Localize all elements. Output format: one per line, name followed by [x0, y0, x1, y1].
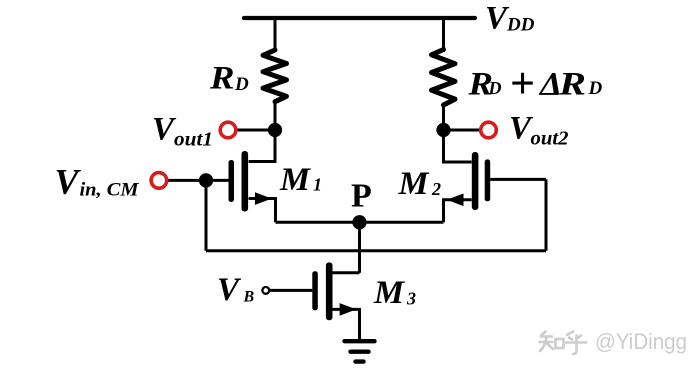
wire: Vout1 stub: [236, 129, 275, 132]
svg-text:D: D: [588, 78, 603, 99]
node Vout2 junction dot: [436, 123, 450, 137]
resistor RD: [263, 50, 287, 102]
svg-text:in, CM: in, CM: [80, 181, 140, 201]
M2 drain lead: [444, 130, 472, 162]
wire: right resistor to Vout2 node: [442, 103, 445, 162]
M3 gate bar: [312, 271, 318, 310]
svg-text:D: D: [234, 74, 249, 95]
svg-text:R: R: [558, 67, 586, 103]
M3 source arrow: [340, 303, 357, 316]
svg-text:1: 1: [313, 175, 322, 195]
svg-text:2: 2: [431, 179, 441, 199]
M1 drain lead: [249, 130, 275, 162]
M1 source lead: [249, 199, 276, 223]
svg-text:out1: out1: [174, 128, 213, 150]
node Vout1 junction dot: [268, 123, 282, 137]
terminal VB (small open circle): [262, 287, 269, 294]
M2 source lead: [444, 200, 472, 223]
transistor M2: [444, 130, 491, 222]
svg-text:M: M: [397, 166, 430, 202]
M2 gate bar: [485, 159, 491, 201]
svg-text:P: P: [351, 178, 372, 215]
wire: VB to M3 gate: [270, 289, 313, 292]
svg-text:V: V: [217, 272, 242, 308]
wire: right riser down: [545, 179, 548, 250]
wire: P rail: [276, 221, 444, 224]
resistor RD+dRD: [432, 50, 456, 106]
svg-text:3: 3: [406, 289, 416, 309]
svg-text:R: R: [209, 61, 235, 97]
M1 channel bar: [242, 151, 249, 212]
wire: left resistor to Vout1 node: [274, 100, 277, 161]
ground: [345, 341, 375, 361]
wire: left drop from gate node: [205, 180, 208, 250]
wire: Vout2 stub: [444, 129, 481, 132]
svg-text:@YiDingg: @YiDingg: [595, 329, 687, 354]
svg-text:M: M: [279, 162, 312, 198]
M3 channel bar: [326, 262, 333, 320]
wire: P to M3 drain: [358, 222, 361, 272]
VDD rail: [244, 16, 475, 20]
terminal Vout2 (red ring): [481, 122, 497, 138]
watermark zhihu: [538, 327, 687, 354]
M2 source arrow: [447, 194, 464, 207]
M2 channel bar: [472, 152, 479, 210]
wire: rail to left resistor: [274, 18, 277, 52]
terminal Vout1 (red ring): [220, 122, 236, 138]
svg-text:V: V: [55, 162, 82, 202]
svg-text:B: B: [243, 289, 255, 306]
M1 source arrow: [255, 192, 272, 205]
wire: rail to right resistor: [442, 18, 445, 52]
svg-text:D: D: [488, 78, 502, 98]
node: gate junction dot: [199, 173, 213, 187]
node P dot: [352, 215, 366, 229]
svg-text:+: +: [510, 59, 535, 108]
transistor M3: [312, 262, 359, 340]
M3 drain lead: [333, 271, 360, 274]
M1 gate bar: [229, 160, 235, 202]
M3 source lead: [333, 309, 360, 340]
terminal Vin,CM (red ring): [151, 173, 167, 189]
wire: bottom gate bus: [206, 249, 546, 252]
transistor M1: [229, 130, 276, 222]
svg-text:out2: out2: [531, 128, 569, 150]
svg-text:M: M: [373, 275, 406, 311]
wire: Vin to M1 gate: [168, 179, 229, 182]
svg-text:DD: DD: [506, 15, 535, 36]
wire: M2 gate to right riser: [490, 178, 546, 181]
